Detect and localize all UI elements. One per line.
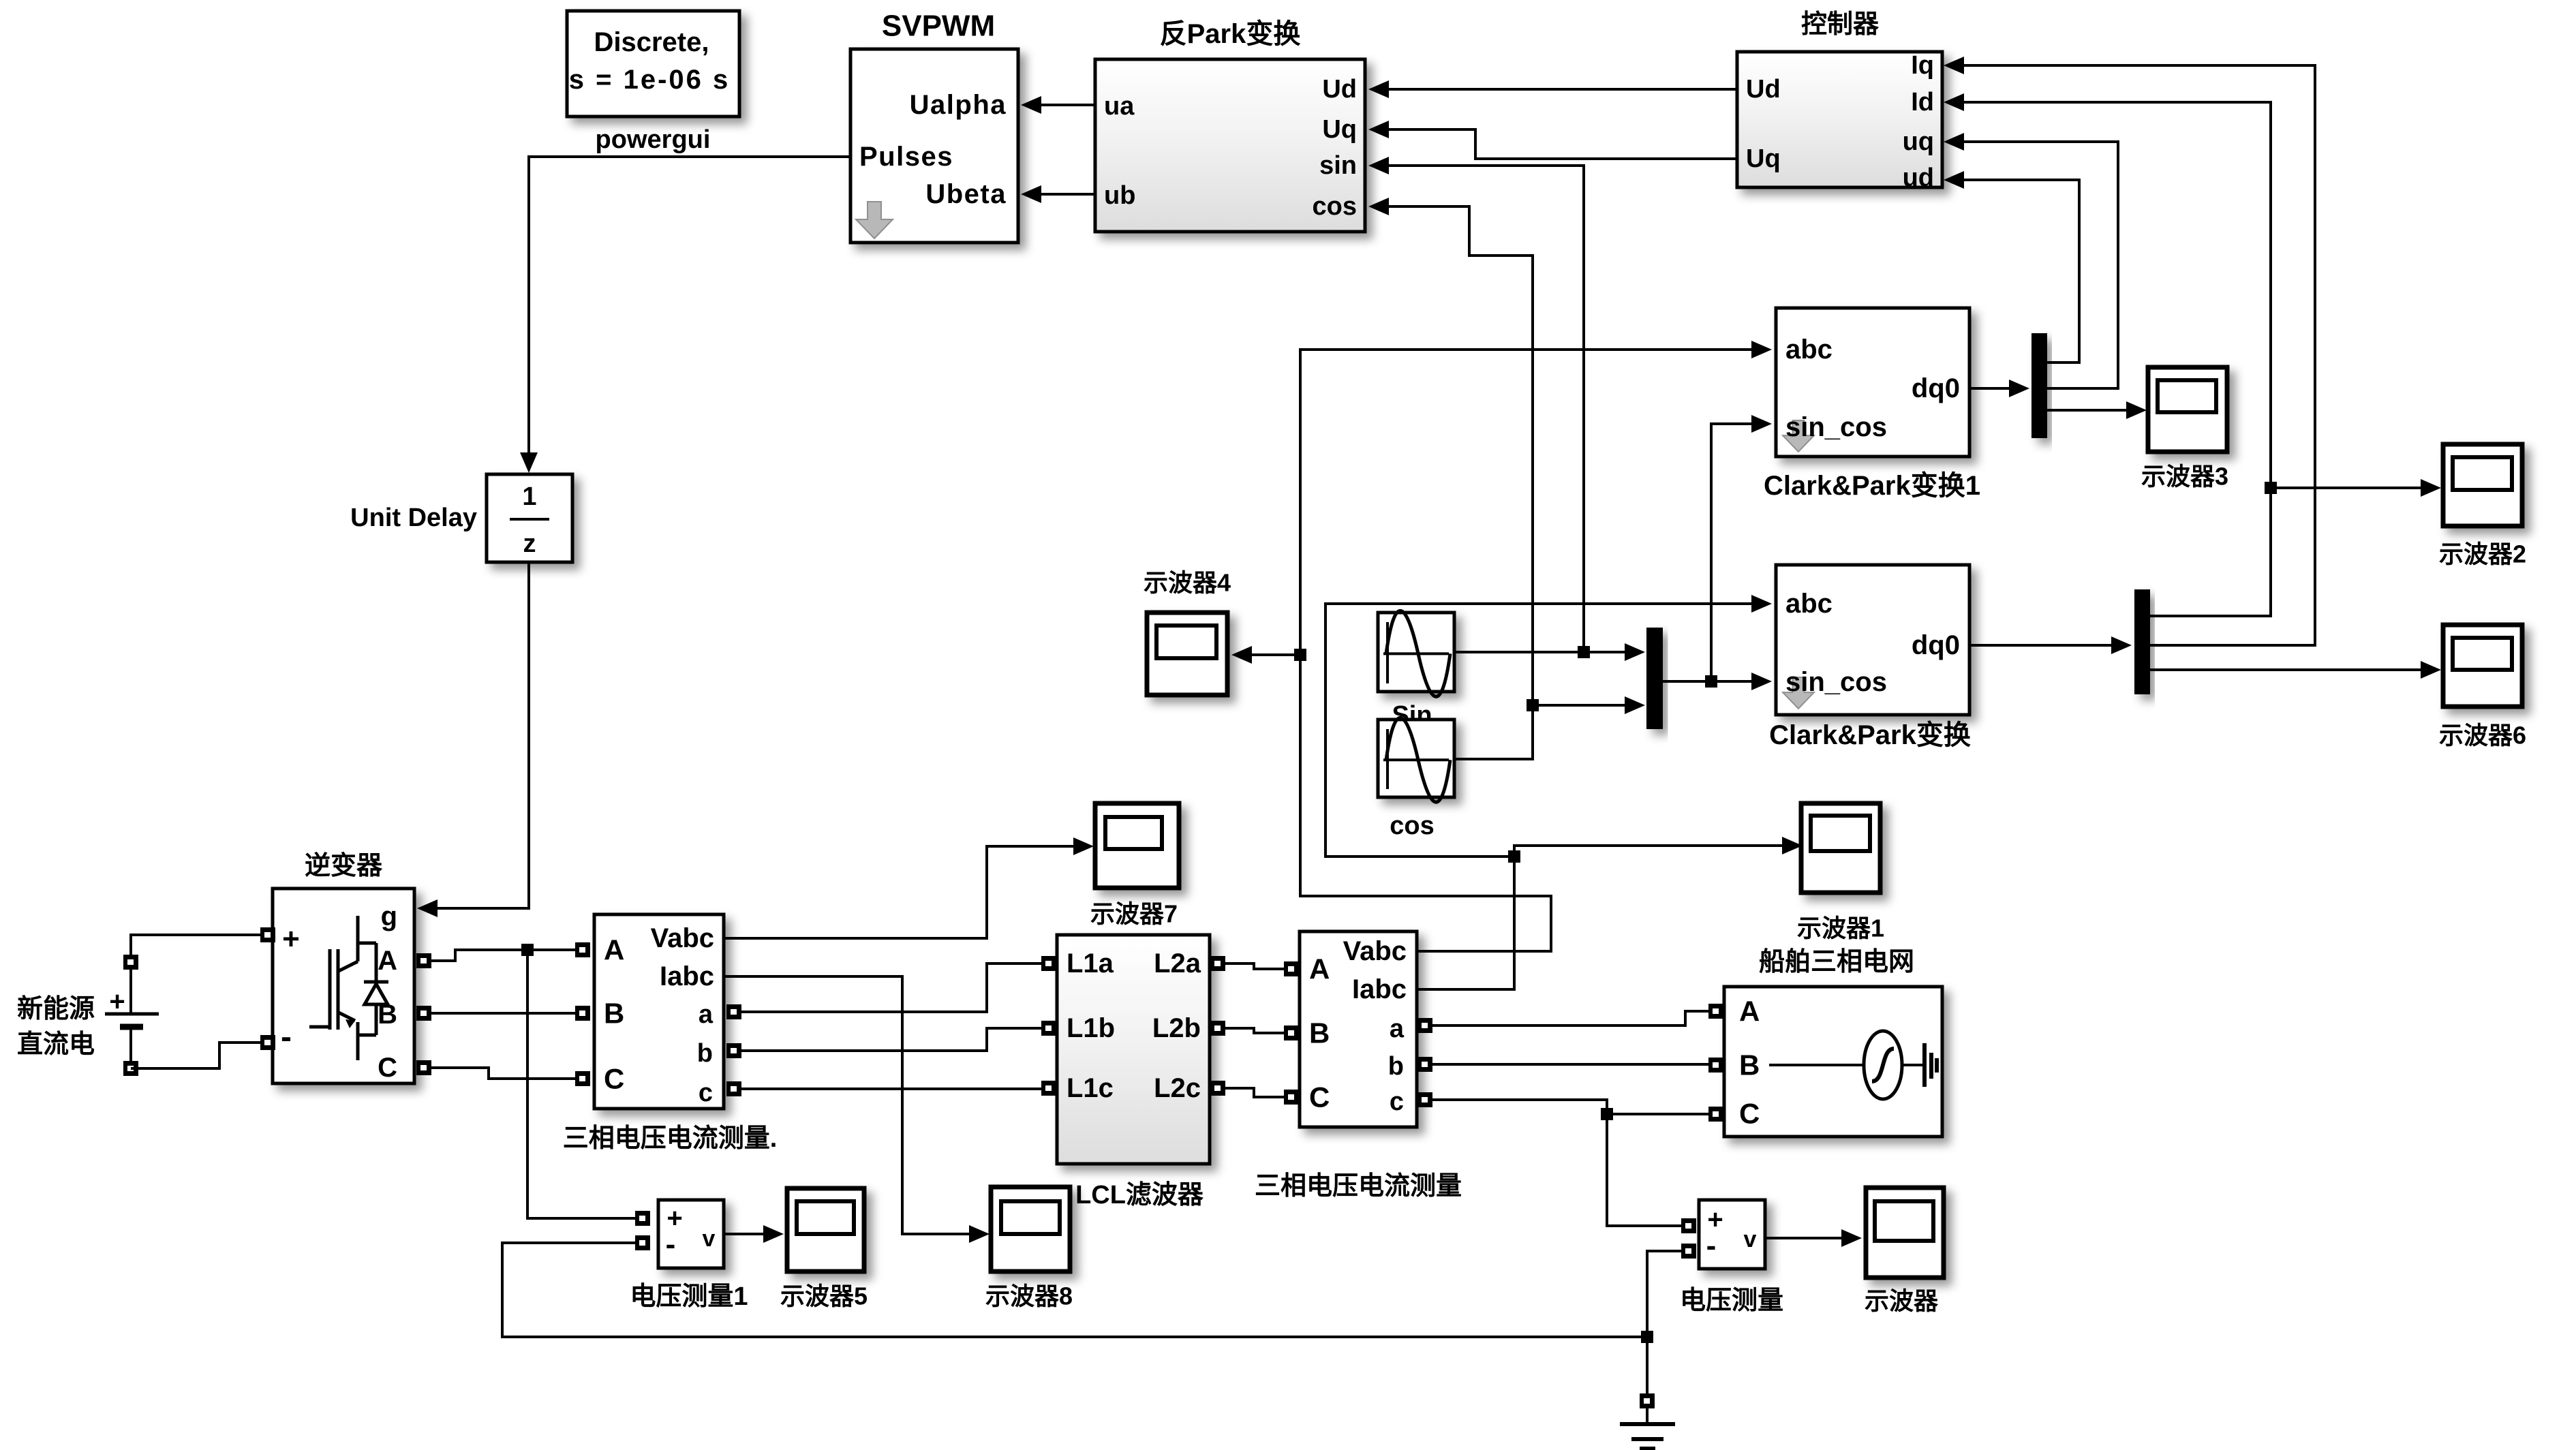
svg-text:b: b (1388, 1052, 1404, 1081)
port square meas1 C (575, 1071, 590, 1086)
port square meas1 a (726, 1004, 741, 1019)
svg-text:c: c (1390, 1087, 1404, 1116)
svg-text:示波器5: 示波器5 (780, 1282, 868, 1310)
port square LCL L1b (1041, 1021, 1056, 1036)
port square LCL L2a (1210, 956, 1225, 971)
block Unit Delay 1/z (487, 474, 572, 562)
svg-text:L1a: L1a (1067, 948, 1114, 978)
label Clark&Park变换 (1769, 720, 1971, 750)
svg-text:C: C (604, 1063, 624, 1095)
wire 电压测量 v to 示波器 (1765, 1229, 1862, 1247)
svg-text:Ud: Ud (1322, 75, 1357, 104)
label 新能源直流电 (17, 995, 95, 1059)
label 电压测量1 (630, 1282, 748, 1311)
scope 示波器5 (787, 1188, 864, 1271)
svg-text:Uq: Uq (1746, 144, 1781, 173)
port square meas1 B (575, 1006, 590, 1021)
svg-text:-: - (1706, 1229, 1717, 1263)
label cos (1390, 812, 1434, 840)
svg-text:A: A (1309, 953, 1330, 985)
mux3 bar (1646, 628, 1663, 729)
svg-text:Ualpha: Ualpha (910, 90, 1007, 120)
block 逆变器 inverter (273, 889, 414, 1083)
wire sin source to 反Park sin and mux (1368, 157, 1645, 661)
svg-text:Unit Delay: Unit Delay (350, 504, 477, 532)
wire battery + to inverter + (131, 935, 260, 942)
port square LCL L2b (1210, 1021, 1225, 1036)
label Sin (1392, 701, 1432, 730)
svg-text:sin: sin (1319, 151, 1357, 180)
label Clark&Park变换1 (1764, 471, 1980, 501)
scope 示波器4 (1147, 613, 1227, 695)
svg-text:B: B (1309, 1017, 1330, 1049)
wire 控制器 Uq to 反Park Uq (1368, 121, 1737, 159)
wire mux3 to sin_cos inputs (1663, 415, 1772, 690)
wire meas1 Vabc to 示波器7 (724, 837, 1094, 938)
svg-text:dq0: dq0 (1912, 373, 1960, 403)
label 反Park变换 title (1160, 19, 1301, 49)
block 三相电压电流测量. measurement1 (594, 914, 724, 1109)
svg-text:L1b: L1b (1067, 1013, 1115, 1043)
svg-text:uq: uq (1903, 127, 1934, 156)
wire meas2 c to grid C and 电压测量 + (1432, 1100, 1708, 1226)
port square 电压测量 + (1681, 1218, 1696, 1233)
wire inverter A to meas1 A and 电压测量1 + (431, 944, 635, 1218)
demux2 bar (2134, 589, 2150, 694)
port square 逆变器 C (416, 1060, 431, 1075)
label 示波器 (1865, 1287, 1939, 1315)
svg-text:-: - (666, 1228, 676, 1261)
label 逆变器 title (305, 852, 383, 880)
svg-text:三相电压电流测量.: 三相电压电流测量. (563, 1124, 778, 1153)
scope 示波器3 (2148, 367, 2227, 452)
svg-text:a: a (1390, 1015, 1405, 1043)
svg-text:abc: abc (1785, 335, 1833, 365)
svg-text:b: b (697, 1039, 713, 1068)
svg-text:Vabc: Vabc (1343, 936, 1407, 966)
svg-text:ud: ud (1903, 164, 1934, 192)
label 示波器2 (2439, 540, 2526, 568)
svg-text:v: v (703, 1226, 716, 1252)
port square meas2 B (1284, 1025, 1299, 1040)
block cos source (1378, 718, 1454, 802)
svg-text:SVPWM: SVPWM (882, 10, 995, 43)
svg-text:g: g (381, 901, 397, 931)
svg-text:A: A (604, 934, 624, 966)
label 示波器4 (1144, 569, 1231, 597)
svg-text:v: v (1744, 1227, 1757, 1252)
svg-text:反Park变换: 反Park变换 (1160, 19, 1301, 49)
wire meas1 b to LCL L1b (741, 1028, 1041, 1051)
wire 电压测量1 v to 示波器5 (724, 1225, 784, 1243)
svg-text:示波器6: 示波器6 (2439, 722, 2526, 750)
svg-text:示波器7: 示波器7 (1090, 900, 1178, 928)
wire 控制器 Ud to 反Park Ud (1368, 80, 1737, 98)
wire Unit Delay to inverter g (417, 562, 529, 917)
port square meas2 c (1417, 1092, 1432, 1107)
wire inverter C to meas1 C (431, 1068, 575, 1079)
svg-text:直流电: 直流电 (17, 1030, 95, 1059)
scope 示波器7 (1095, 803, 1179, 888)
wire meas1 c to LCL L1c (741, 1087, 1041, 1090)
svg-text:A: A (378, 946, 397, 976)
svg-text:LCL滤波器: LCL滤波器 (1075, 1181, 1204, 1209)
wire meas2 Iabc to Clark&Park abc and 示波器1 (1325, 595, 1803, 989)
svg-text:示波器: 示波器 (1865, 1287, 1939, 1315)
label 示波器1 (1797, 914, 1884, 942)
port square battery + (123, 955, 138, 970)
svg-text:+: + (109, 987, 125, 1017)
svg-text:Iq: Iq (1911, 51, 1934, 80)
wire 反Park ua to SVPWM Ualpha (1021, 96, 1095, 114)
svg-text:L2a: L2a (1154, 948, 1201, 978)
port square 逆变器 B (416, 1006, 431, 1021)
block powergui annotation box (567, 11, 739, 117)
wire LCL L2a to meas2 A (1225, 963, 1284, 969)
svg-text:ua: ua (1104, 92, 1135, 121)
port square meas2 a (1417, 1018, 1432, 1033)
wire cos source to 反Park cos and mux (1368, 198, 1645, 759)
svg-text:控制器: 控制器 (1801, 10, 1880, 39)
demux1 bar (2031, 333, 2047, 438)
svg-text:1: 1 (522, 482, 536, 511)
label 示波器7 (1090, 900, 1178, 928)
wire demux2 out2 to 控制器 Iq (1944, 57, 2315, 645)
wire Clark&Park1 dq0 to demux1 (1969, 380, 2029, 397)
block 电压测量 voltage measurement (1699, 1200, 1765, 1269)
wire meas1 Iabc to 示波器8 (724, 976, 990, 1243)
wire demux1 out1 to 控制器 ud (1944, 171, 2079, 362)
svg-text:船舶三相电网: 船舶三相电网 (1759, 948, 1914, 976)
svg-text:三相电压电流测量: 三相电压电流测量 (1255, 1172, 1462, 1201)
wire SVPWM Pulses to Unit Delay (520, 157, 850, 473)
port square meas2 A (1284, 961, 1299, 976)
block 船舶三相电网 grid (1724, 987, 1942, 1137)
port square 电压测量 - (1681, 1244, 1696, 1259)
label 船舶三相电网 title (1759, 948, 1914, 976)
svg-text:示波器1: 示波器1 (1797, 914, 1884, 942)
svg-text:示波器8: 示波器8 (985, 1282, 1073, 1310)
wire Clark&Park dq0 to demux2 (1969, 636, 2132, 654)
svg-text:C: C (1739, 1098, 1760, 1130)
svg-text:cos: cos (1390, 812, 1434, 840)
port square meas2 b (1417, 1057, 1432, 1072)
port square 逆变器 - (260, 1035, 275, 1050)
battery 新能源直流电 DC source (105, 942, 159, 1068)
scope 示波器 (1866, 1188, 1944, 1278)
svg-text:C: C (1309, 1081, 1330, 1113)
svg-text:Pulses: Pulses (859, 142, 953, 172)
svg-text:示波器4: 示波器4 (1144, 569, 1231, 597)
block 电压测量1 voltage measurement (658, 1200, 724, 1268)
svg-text:z: z (523, 529, 536, 558)
label 三相电压电流测量. (563, 1124, 778, 1153)
svg-text:s = 1e-06 s: s = 1e-06 s (569, 65, 731, 95)
port square 电压测量1 - (635, 1235, 650, 1250)
label LCL滤波器 (1075, 1181, 1204, 1209)
svg-text:sin_cos: sin_cos (1785, 667, 1887, 697)
wire LCL L2c to meas2 C (1225, 1088, 1284, 1097)
scope 示波器2 (2443, 444, 2522, 526)
svg-text:Clark&Park变换: Clark&Park变换 (1769, 720, 1971, 750)
port square meas2 C (1284, 1090, 1299, 1105)
svg-text:dq0: dq0 (1912, 630, 1960, 660)
svg-text:逆变器: 逆变器 (305, 852, 383, 880)
svg-text:新能源: 新能源 (17, 995, 95, 1023)
svg-text:Uq: Uq (1322, 115, 1357, 144)
block 反Park变换 subsystem (1095, 59, 1365, 232)
port square 逆变器 A (416, 953, 431, 968)
port square grid A (1708, 1004, 1723, 1019)
wire 电压测量 - to ground (1641, 1251, 1681, 1393)
svg-text:cos: cos (1313, 192, 1357, 221)
svg-text:A: A (1739, 996, 1760, 1028)
svg-text:示波器2: 示波器2 (2439, 540, 2526, 568)
svg-text:ub: ub (1104, 181, 1135, 210)
svg-text:L1c: L1c (1067, 1073, 1114, 1103)
wire meas2 Vabc to Clark&Park1 abc and 示波器4 (1231, 341, 1772, 951)
wire LCL L2b to meas2 B (1225, 1028, 1284, 1033)
svg-text:Discrete,: Discrete, (594, 27, 709, 57)
block 三相电压电流测量 measurement2 (1300, 931, 1417, 1127)
block 控制器 subsystem (1737, 51, 1942, 192)
wire 反Park ub to SVPWM Ubeta (1021, 185, 1095, 203)
wire demux1 out2 to 控制器 uq (1944, 133, 2118, 388)
port square grid B (1708, 1058, 1723, 1073)
scope 示波器8 (991, 1187, 1070, 1271)
port square LCL L1c (1041, 1081, 1056, 1096)
port square grid C (1708, 1107, 1723, 1122)
svg-text:L2b: L2b (1152, 1013, 1201, 1043)
block LCL滤波器 (1057, 935, 1210, 1164)
label 三相电压电流测量 (1255, 1172, 1462, 1201)
svg-text:Vabc: Vabc (651, 923, 714, 953)
port square LCL L2c (1210, 1081, 1225, 1096)
block Sin source (1378, 611, 1454, 696)
wire meas2 b to grid B (1432, 1063, 1708, 1066)
label 示波器5 (780, 1282, 868, 1310)
label 示波器6 (2439, 722, 2526, 750)
svg-text:示波器3: 示波器3 (2141, 463, 2228, 491)
label powergui (596, 125, 711, 154)
svg-text:Ubeta: Ubeta (925, 179, 1007, 209)
svg-text:Clark&Park变换1: Clark&Park变换1 (1764, 471, 1980, 501)
svg-text:a: a (699, 1000, 714, 1029)
label 示波器8 (985, 1282, 1073, 1310)
port square 逆变器 + (260, 927, 275, 942)
label SVPWM title (882, 10, 995, 43)
block Clark&Park变换 subsystem (1776, 565, 1969, 715)
port square meas1 b (726, 1043, 741, 1058)
wire demux1 out3 to 示波器3 (2047, 401, 2147, 419)
label 示波器3 (2141, 463, 2228, 491)
svg-text:powergui: powergui (596, 125, 711, 154)
svg-text:c: c (699, 1079, 713, 1107)
scope 示波器1 (1801, 803, 1880, 893)
label 控制器 title (1801, 10, 1880, 39)
svg-text:Id: Id (1911, 88, 1934, 117)
svg-text:Iabc: Iabc (660, 961, 714, 991)
wire meas2 a to grid A (1432, 1011, 1708, 1025)
port square meas1 A (575, 942, 590, 957)
label Unit Delay (350, 504, 477, 532)
label 电压测量 (1680, 1286, 1783, 1315)
wire inverter B to meas1 B (431, 1012, 575, 1015)
svg-text:-: - (281, 1019, 292, 1055)
svg-text:L2c: L2c (1154, 1073, 1201, 1103)
svg-text:abc: abc (1785, 589, 1833, 619)
svg-text:sin_cos: sin_cos (1785, 412, 1887, 442)
wire 电压测量1 - to ground node (502, 1243, 1641, 1337)
svg-text:电压测量: 电压测量 (1680, 1286, 1783, 1315)
port square 电压测量1 + (635, 1211, 650, 1226)
wire meas1 a to LCL L1a (741, 963, 1041, 1012)
scope 示波器6 (2443, 625, 2522, 707)
ground symbol (1620, 1393, 1675, 1449)
svg-text:Ud: Ud (1746, 75, 1781, 104)
block Clark&Park变换1 subsystem (1776, 308, 1969, 457)
svg-text:C: C (378, 1053, 397, 1083)
wire demux2 out1 to 控制器 Id and 示波器2 (1944, 93, 2441, 616)
port square meas1 c (726, 1081, 741, 1096)
svg-text:电压测量1: 电压测量1 (630, 1282, 748, 1311)
svg-text:B: B (1739, 1049, 1760, 1081)
svg-text:+: + (282, 923, 300, 956)
wire battery - to inverter - (131, 1043, 260, 1068)
port square battery - (123, 1061, 138, 1076)
svg-text:Iabc: Iabc (1352, 974, 1407, 1004)
svg-text:B: B (604, 998, 624, 1030)
wire demux2 out3 to 示波器6 (2150, 661, 2441, 679)
port square LCL L1a (1041, 956, 1056, 971)
block SVPWM subsystem (850, 49, 1018, 243)
